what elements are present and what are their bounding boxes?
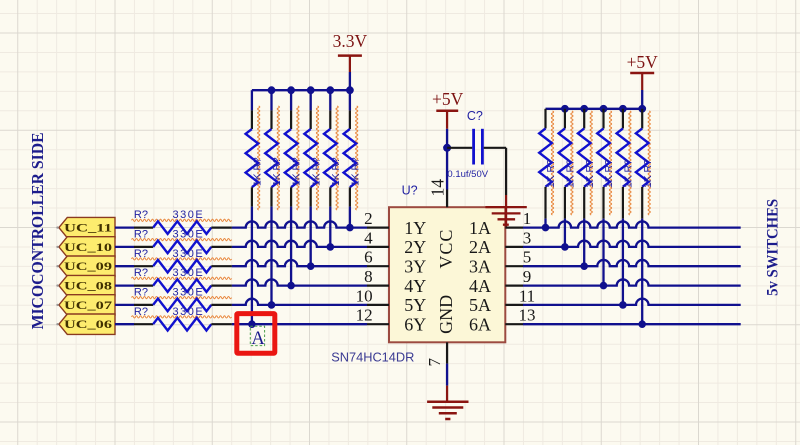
junction row 5 at right col 5	[619, 301, 627, 309]
junction row 1 at right col 1	[542, 224, 550, 232]
svg-text:R?: R?	[134, 306, 148, 318]
wire +5V to pin 14	[446, 129, 448, 190]
error squiggle under R? 330E row 5	[132, 296, 232, 298]
svg-text:R?: R?	[134, 229, 148, 241]
wire UC_07 to resistor	[115, 304, 134, 306]
svg-text:9: 9	[523, 267, 532, 286]
junction row 4 at right col 4	[600, 282, 608, 290]
svg-text:R?: R?	[134, 267, 148, 279]
error squiggle right pullup 3	[590, 111, 592, 215]
wire left pullup 2 to row 5	[270, 207, 272, 305]
resistor R? 1K right pullup 5	[617, 109, 635, 219]
svg-text:U?: U?	[402, 184, 418, 198]
svg-text:1K R?: 1K R?	[624, 159, 635, 188]
wire row 3 resistor to IC pin with hops	[232, 260, 367, 266]
svg-text:330E: 330E	[173, 209, 205, 221]
svg-text:UC_06: UC_06	[64, 317, 112, 331]
wire UC_08 to resistor	[115, 284, 134, 286]
svg-text:12: 12	[356, 306, 373, 325]
error squiggle under R? 330E row 2	[132, 238, 232, 240]
port UC_08	[56, 275, 115, 295]
wire row 1 IC pin 1 to switches with hops	[523, 221, 741, 227]
svg-text:330E: 330E	[173, 229, 205, 241]
svg-text:1K R?: 1K R?	[351, 157, 362, 186]
svg-text:5: 5	[523, 248, 532, 267]
junction rail 3.3V col 3	[287, 86, 295, 94]
port UC_09	[56, 256, 115, 276]
svg-text:GND: GND	[436, 295, 456, 334]
wire UC_11 to resistor	[115, 226, 134, 228]
wire row 6 resistor to IC pin with hops	[232, 323, 367, 325]
junction row 3 at left col 4	[307, 262, 315, 270]
pin 13 stub	[505, 323, 523, 325]
junction rail +5V col 3	[580, 105, 588, 113]
junction rail +5V col 6	[638, 105, 646, 113]
svg-text:3A: 3A	[469, 257, 491, 277]
IC U? SN74HC14DR body	[389, 207, 505, 342]
svg-text:UC_08: UC_08	[64, 279, 112, 293]
junction row 5 at left col 2	[268, 301, 276, 309]
resistor R? 330E row 4	[134, 267, 232, 292]
ground GND power port near pin 1	[485, 195, 526, 227]
error squiggle right pullup 4	[609, 111, 611, 215]
wire row 6 IC pin 13 to switches with hops	[523, 323, 741, 325]
svg-text:UC_10: UC_10	[64, 240, 112, 254]
error squiggle right pullup 6	[648, 111, 650, 215]
wire +5V rail right	[546, 108, 643, 110]
svg-text:6Y: 6Y	[404, 315, 426, 335]
error squiggle under R? 330E row 1	[132, 219, 232, 221]
pin 5 stub	[505, 265, 523, 267]
svg-text:8: 8	[364, 267, 373, 286]
junction row 4 at left col 3	[287, 282, 295, 290]
wire left pullup 4 to row 3	[310, 207, 312, 267]
wire right pullup 4 to row 4	[602, 219, 604, 286]
resistor R? 1K left pullup 2	[265, 110, 283, 206]
svg-text:4Y: 4Y	[404, 276, 426, 296]
capacitor C? 0.1uf/50V	[447, 109, 506, 180]
wire left pullup 6 to row 1	[349, 207, 351, 228]
svg-text:5Y: 5Y	[404, 295, 426, 315]
resistor R? 1K right pullup 6	[636, 109, 654, 219]
svg-text:4: 4	[364, 228, 373, 247]
junction rail 3.3V col 4	[307, 86, 315, 94]
svg-text:C?: C?	[467, 109, 483, 123]
resistor R? 1K left pullup 5	[324, 110, 342, 206]
resistor R? 1K left pullup 1	[246, 110, 264, 206]
svg-text:330E: 330E	[173, 287, 205, 299]
svg-text:2Y: 2Y	[404, 237, 426, 257]
pin 3 stub	[505, 246, 523, 248]
svg-text:1: 1	[523, 209, 532, 228]
svg-text:1K R?: 1K R?	[643, 159, 654, 188]
pin 10 stub	[367, 304, 389, 306]
error squiggle left pullup 4	[316, 106, 318, 210]
pin 8 stub	[367, 285, 389, 287]
power port +5V (right)	[627, 52, 659, 90]
svg-text:330E: 330E	[173, 306, 205, 318]
wire UC_09 to resistor	[115, 265, 134, 267]
port UC_11	[56, 217, 115, 237]
resistor R? 1K left pullup 4	[304, 110, 322, 206]
wire right pullup 6 to row 6	[641, 219, 643, 325]
wire rail to left pullup 5	[329, 90, 331, 110]
resistor R? 1K left pullup 6	[344, 110, 362, 206]
svg-text:2A: 2A	[469, 237, 491, 257]
error squiggle left pullup 5	[336, 106, 338, 210]
wire UC_06 to resistor	[115, 323, 134, 325]
wire rail to left pullup 4	[310, 90, 312, 110]
svg-text:SN74HC14DR: SN74HC14DR	[331, 350, 414, 365]
resistor R? 330E row 6	[134, 306, 232, 331]
junction row 1 at left col 6	[346, 224, 354, 232]
wire left pullup 5 to row 2	[329, 207, 331, 247]
node A highlight box	[237, 314, 275, 354]
error squiggle under R? 330E row 3	[132, 258, 232, 260]
error squiggle left pullup 3	[297, 106, 299, 210]
pin 4 stub	[367, 246, 389, 248]
junction rail +5V col 5	[619, 105, 627, 113]
resistor R? 1K right pullup 1	[539, 109, 557, 219]
svg-text:13: 13	[519, 306, 536, 325]
pin 11 stub	[505, 304, 523, 306]
wire rail to left pullup 1	[251, 90, 253, 110]
junction VCC node	[443, 144, 451, 152]
resistor R? 330E row 2	[134, 229, 232, 254]
wire +5V stem right	[641, 90, 643, 109]
junction row 6 at left col 1	[248, 320, 256, 328]
junction row 2 at left col 5	[327, 243, 335, 251]
svg-text:3.3V: 3.3V	[333, 31, 368, 51]
port UC_07	[56, 295, 115, 315]
wire right pullup 1 to row 1	[544, 219, 546, 228]
wire left pullup 1 to row 6	[251, 207, 253, 325]
svg-text:0.1uf/50V: 0.1uf/50V	[447, 169, 488, 180]
error squiggle right pullup 1	[551, 111, 553, 215]
junction rail 3.3V col 2	[268, 86, 276, 94]
svg-text:1K R?: 1K R?	[546, 159, 557, 188]
svg-text:UC_07: UC_07	[64, 298, 112, 312]
error squiggle under R? 330E row 4	[132, 277, 232, 279]
wire row 3 IC pin 5 to switches with hops	[523, 260, 741, 266]
error squiggle left pullup 6	[356, 106, 358, 210]
wire rail to left pullup 6	[349, 90, 351, 110]
wire row 4 IC pin 9 to switches with hops	[523, 279, 741, 285]
svg-text:1K R?: 1K R?	[272, 157, 283, 186]
svg-text:1K R?: 1K R?	[253, 157, 264, 186]
junction row 2 at right col 2	[561, 243, 569, 251]
svg-text:R?: R?	[134, 287, 148, 299]
wire pin 7 to ground	[446, 364, 448, 386]
error squiggle under R? 330E row 6	[132, 316, 232, 318]
resistor R? 1K right pullup 2	[559, 109, 577, 219]
svg-text:1A: 1A	[469, 218, 491, 238]
wire row 5 resistor to IC pin with hops	[232, 299, 367, 305]
pin 9 stub	[505, 285, 523, 287]
error squiggle right pullup 5	[629, 111, 631, 215]
svg-text:+5V: +5V	[627, 52, 659, 72]
svg-text:UC_09: UC_09	[64, 259, 112, 273]
wire row 2 resistor to IC pin with hops	[232, 241, 367, 247]
svg-text:5v SWITCHES: 5v SWITCHES	[764, 199, 781, 296]
resistor R? 1K right pullup 4	[597, 109, 615, 219]
error squiggle right pullup 2	[571, 111, 573, 215]
resistor R? 330E row 3	[134, 248, 232, 273]
resistor R? 1K right pullup 3	[578, 109, 596, 219]
junction row 6 at right col 6	[638, 320, 646, 328]
net label A	[250, 326, 265, 349]
svg-text:UC_11: UC_11	[64, 221, 112, 235]
power port 3.3V	[333, 31, 368, 72]
power port +5V (VCC)	[432, 89, 464, 129]
wire left pullup 3 to row 4	[290, 207, 292, 286]
svg-text:4A: 4A	[469, 276, 491, 296]
svg-text:6A: 6A	[469, 315, 491, 335]
port UC_06	[56, 314, 115, 334]
port UC_10	[56, 237, 115, 257]
svg-text:1K R?: 1K R?	[585, 159, 596, 188]
svg-text:11: 11	[519, 286, 535, 305]
resistor R? 1K left pullup 3	[285, 110, 303, 206]
resistor R? 330E row 1	[134, 209, 232, 234]
wire 3.3V stem	[349, 72, 351, 90]
wire row 2 IC pin 3 to switches with hops	[523, 241, 741, 247]
svg-text:R?: R?	[134, 248, 148, 260]
svg-text:5A: 5A	[469, 295, 491, 315]
wire 3.3V rail	[252, 89, 350, 91]
wire right pullup 5 to row 5	[622, 219, 624, 305]
svg-text:1K R?: 1K R?	[566, 159, 577, 188]
svg-text:6: 6	[364, 248, 373, 267]
pin 2 stub	[367, 227, 389, 229]
wire right pullup 3 to row 3	[583, 219, 585, 267]
junction row 3 at right col 3	[580, 262, 588, 270]
pin 7 stub	[446, 342, 448, 363]
resistor R? 330E row 5	[134, 287, 232, 312]
svg-text:1K R?: 1K R?	[292, 157, 303, 186]
ground GND power port bottom	[427, 386, 468, 419]
wire capacitor to ground	[505, 148, 507, 195]
svg-text:3Y: 3Y	[404, 257, 426, 277]
svg-text:MICOCONTROLLER SIDE: MICOCONTROLLER SIDE	[28, 132, 47, 329]
svg-text:330E: 330E	[173, 248, 205, 260]
svg-text:1K R?: 1K R?	[311, 157, 322, 186]
svg-text:10: 10	[356, 286, 373, 305]
junction rail +5V col 2	[561, 105, 569, 113]
junction rail 3.3V col 6	[346, 86, 354, 94]
wire row 5 IC pin 11 to switches with hops	[523, 299, 741, 305]
error squiggle left pullup 2	[277, 106, 279, 210]
svg-text:14: 14	[427, 179, 447, 197]
wire row 4 resistor to IC pin with hops	[232, 279, 367, 285]
wire row 1 resistor to IC pin with hops	[232, 221, 367, 227]
svg-text:1Y: 1Y	[404, 218, 426, 238]
svg-text:1K R?: 1K R?	[604, 159, 615, 188]
svg-text:3: 3	[523, 228, 532, 247]
svg-text:VCC: VCC	[436, 229, 456, 269]
junction rail +5V col 4	[600, 105, 608, 113]
wire rail to left pullup 3	[290, 90, 292, 110]
pin 14 stub	[446, 190, 448, 208]
svg-text:1K R?: 1K R?	[331, 157, 342, 186]
svg-text:2: 2	[364, 209, 373, 228]
svg-text:7: 7	[425, 358, 444, 367]
wire rail to left pullup 2	[270, 90, 272, 110]
svg-text:+5V: +5V	[432, 89, 464, 109]
svg-text:R?: R?	[134, 209, 148, 221]
svg-text:A: A	[251, 329, 265, 349]
pin 12 stub	[367, 323, 389, 325]
wire right pullup 2 to row 2	[564, 219, 566, 247]
error squiggle left pullup 1	[258, 106, 260, 210]
svg-text:330E: 330E	[173, 267, 205, 279]
pin 6 stub	[367, 265, 389, 267]
junction rail 3.3V col 5	[326, 86, 334, 94]
pin 1 stub	[505, 227, 523, 229]
wire UC_10 to resistor	[115, 246, 134, 248]
